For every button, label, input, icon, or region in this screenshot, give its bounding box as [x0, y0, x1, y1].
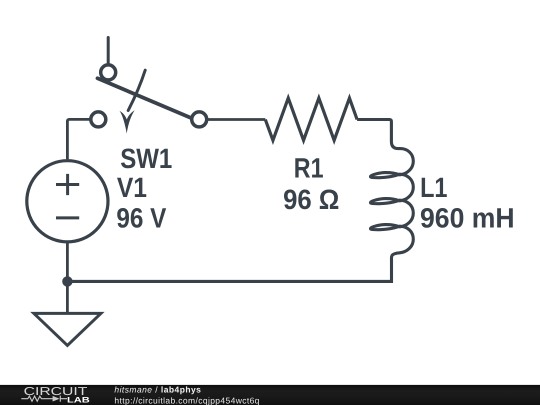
svg-text:L1: L1 — [420, 172, 447, 203]
svg-text:R1: R1 — [294, 152, 324, 183]
svg-text:96 V: 96 V — [116, 203, 166, 234]
svg-text:http://circuitlab.com/cqjpp454: http://circuitlab.com/cqjpp454wct6q — [114, 396, 259, 405]
svg-text:V1: V1 — [117, 172, 147, 203]
svg-text:96 Ω: 96 Ω — [283, 184, 339, 215]
svg-text:LAB: LAB — [67, 396, 90, 405]
svg-text:960 mH: 960 mH — [420, 202, 515, 233]
svg-text:SW1: SW1 — [120, 143, 172, 174]
svg-text:hitsmane / lab4phys: hitsmane / lab4phys — [114, 385, 201, 395]
